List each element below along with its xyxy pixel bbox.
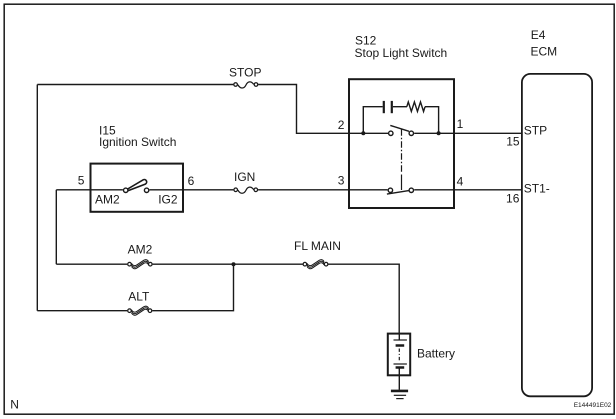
- svg-text:1: 1: [457, 117, 464, 131]
- svg-text:5: 5: [78, 174, 85, 188]
- svg-text:Stop Light Switch: Stop Light Switch: [355, 46, 448, 60]
- fusible link ALT: [128, 306, 152, 315]
- svg-text:6: 6: [188, 174, 195, 188]
- switch I15 key blade: [127, 180, 147, 191]
- switch S12 lower contact right: [409, 188, 413, 192]
- wire row2 S12 pin4 to ECM: [414, 189, 521, 191]
- svg-text:3: 3: [338, 173, 345, 187]
- wire ALT row left: [37, 310, 127, 312]
- wire row2 IGN fuse to S12 pin3: [258, 189, 388, 191]
- switch I15 contact pin 5: [124, 188, 128, 192]
- svg-text:STP: STP: [524, 124, 547, 138]
- wire AM2 row middle: [153, 263, 303, 265]
- svg-text:FL MAIN: FL MAIN: [294, 239, 341, 253]
- switch S12 upper contact left: [389, 131, 393, 135]
- ground symbol: [391, 391, 408, 399]
- wire vertical pin5 to AM2 row: [55, 190, 57, 264]
- node junction AM2/ALT: [232, 262, 236, 266]
- fusible link AM2: [128, 260, 152, 269]
- battery box: [388, 334, 410, 376]
- svg-text:AM2: AM2: [128, 243, 153, 257]
- node snubber left: [361, 131, 365, 135]
- wire cap to resistor: [393, 106, 407, 108]
- capacitor C snubber: [384, 101, 392, 113]
- battery dashed link: [398, 349, 400, 362]
- svg-text:ALT: ALT: [128, 290, 150, 304]
- svg-text:Ignition Switch: Ignition Switch: [99, 135, 176, 149]
- wire ALT row right up to AM2 row: [152, 264, 233, 311]
- svg-text:4: 4: [457, 175, 464, 189]
- wire FL MAIN to battery: [328, 264, 399, 333]
- switch I15 ignition switch box: [91, 164, 184, 212]
- svg-text:ECM: ECM: [531, 45, 558, 59]
- mechanical link dashed: [401, 129, 403, 190]
- wire STOP row left: [37, 84, 233, 86]
- svg-text:STOP: STOP: [229, 66, 261, 80]
- svg-text:IG2: IG2: [158, 193, 178, 207]
- switch S12 upper blade: [390, 125, 409, 131]
- wire into battery: [398, 333, 400, 340]
- node snubber right: [437, 131, 441, 135]
- switch S12 upper contact right: [409, 131, 413, 135]
- svg-text:E144491E02: E144491E02: [574, 402, 612, 409]
- switch S12 lower contact left: [388, 188, 392, 192]
- wire battery to ground: [398, 368, 400, 390]
- battery cell plate short 1: [396, 344, 405, 347]
- wire AM2 row left: [56, 263, 127, 265]
- svg-text:16: 16: [506, 191, 520, 205]
- wire left bus: [36, 85, 38, 311]
- svg-text:Battery: Battery: [417, 347, 455, 361]
- wire snubber branch left stub: [363, 107, 382, 134]
- wire row2 pin5 segment: [56, 189, 123, 191]
- wire row1 S12 left side: [349, 132, 388, 134]
- fuse IGN: [234, 187, 258, 193]
- battery cell plate short 2: [396, 366, 405, 369]
- switch I15 contact pin 6: [144, 188, 148, 192]
- svg-text:2: 2: [338, 118, 345, 132]
- svg-text:IGN: IGN: [234, 170, 255, 184]
- svg-text:AM2: AM2: [95, 193, 120, 207]
- wire row1 S12 right side to ECM: [414, 132, 521, 134]
- wire row2 pin6 to IGN fuse: [150, 189, 234, 191]
- switch S12 lower blade: [387, 191, 409, 195]
- svg-text:N: N: [10, 398, 19, 412]
- battery cell plate long 1: [394, 339, 407, 341]
- ECM E4 connector box: [522, 74, 592, 396]
- svg-text:15: 15: [506, 134, 520, 148]
- svg-text:ST1-: ST1-: [524, 182, 550, 196]
- svg-text:E4: E4: [531, 28, 546, 42]
- wire STOP row right with drop to pin 2: [258, 85, 349, 134]
- fuse STOP: [234, 82, 258, 88]
- switch S12 stop light switch box: [349, 79, 454, 208]
- fusible link FL MAIN: [303, 260, 328, 269]
- resistor R snubber: [407, 102, 425, 112]
- wire snubber branch right stub: [425, 107, 439, 134]
- battery cell plate long 2: [394, 363, 407, 365]
